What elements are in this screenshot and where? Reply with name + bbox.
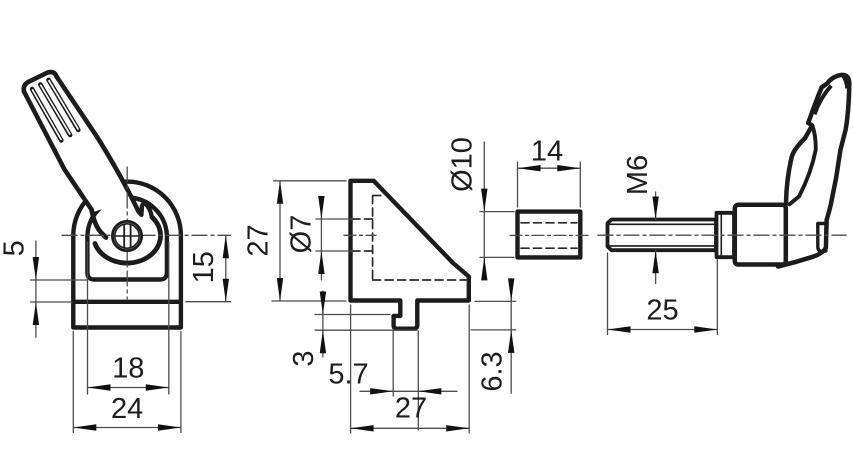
grip line 1 [32,89,61,140]
bushing outline [518,212,581,258]
svg-text:5.7: 5.7 [328,359,368,391]
screw horizontal line [115,235,139,237]
dimension 14 [518,162,581,207]
svg-text:18: 18 [112,353,144,385]
dimension 18 [88,242,169,394]
hub body [735,205,786,265]
bracket inner slot [87,197,166,279]
lever arm inner contour line [790,125,816,204]
dimension 24 [73,332,181,433]
svg-text:27: 27 [395,393,427,425]
svg-text:25: 25 [646,295,678,327]
centerline vertical through screw [126,167,128,300]
threaded stud [608,220,717,251]
collar / washer [717,213,735,257]
svg-text:6.3: 6.3 [477,351,509,391]
profile outline with hook rib [351,181,469,329]
centerline horizontal through screw [62,234,230,236]
hidden hole lines dashed [352,219,373,251]
collar inner line [720,215,722,256]
bushing hidden bore lines [521,223,577,248]
handle top cap edge [24,72,57,91]
handle right edge [57,77,142,215]
bracket base step line [73,300,181,304]
lever handle body fill (front view) [24,72,139,212]
lever cap right seam stub [843,76,847,88]
svg-text:M6: M6 [622,155,654,195]
svg-text:5: 5 [0,240,31,256]
dimension 15 (right) [186,235,230,301]
lever cap seam line [815,86,832,115]
thread minor lines [610,224,717,246]
dimension 5 (left) [31,241,88,337]
svg-text:Ø7: Ø7 [286,215,318,254]
hole centerline [344,234,376,236]
grip line 3 [49,80,79,130]
dimension 5.7 (hook width) [360,331,457,430]
bushing centerline [510,234,588,236]
right curl at hub arc end [141,204,152,217]
bracket outer outline [73,182,181,328]
dimension 27 (bottom width) [351,305,470,433]
svg-text:3: 3 [288,350,320,366]
left prong curl of lever [92,210,107,238]
handle left edge [24,92,92,210]
screw slot lines [124,224,130,247]
dimension 25 [608,253,718,335]
lever arm (behind hub) [778,75,849,267]
svg-text:15: 15 [188,251,220,283]
hub ring arc around screw [95,217,161,263]
svg-text:27: 27 [243,224,275,256]
svg-text:14: 14 [531,136,563,168]
screw outer circle [112,221,141,250]
dimension 27 (left, height) [272,181,346,301]
dimension Ø7 [316,197,352,281]
hidden slot outline dashed [373,196,466,281]
svg-text:24: 24 [111,393,143,425]
main centerline [598,234,846,236]
clamp pad tab [818,224,827,252]
dimension 3 (hook lip) [315,291,417,357]
screw inner circle [115,224,139,248]
dimension 6.3 (hook depth, right) [471,280,516,393]
svg-text:Ø10: Ø10 [447,137,479,192]
dimension M6 [655,192,657,284]
dimension Ø10 [480,142,514,272]
grip line 2 [40,85,70,136]
